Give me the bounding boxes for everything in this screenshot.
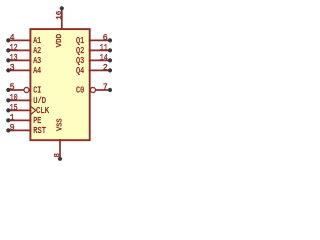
svg-text:VDD: VDD bbox=[56, 33, 64, 47]
svg-text:RST: RST bbox=[33, 126, 46, 136]
svg-text:Q2: Q2 bbox=[76, 46, 84, 56]
svg-text:6: 6 bbox=[103, 33, 108, 43]
svg-text:15: 15 bbox=[10, 103, 18, 113]
svg-text:10: 10 bbox=[10, 93, 18, 103]
svg-text:12: 12 bbox=[10, 43, 18, 53]
svg-text:Q1: Q1 bbox=[76, 36, 84, 46]
svg-text:U/D: U/D bbox=[33, 96, 46, 106]
svg-text:CI: CI bbox=[33, 86, 41, 96]
svg-text:16: 16 bbox=[56, 11, 64, 20]
svg-text:1: 1 bbox=[10, 113, 15, 123]
svg-text:3: 3 bbox=[10, 63, 15, 73]
svg-text:CLK: CLK bbox=[36, 106, 50, 116]
svg-text:9: 9 bbox=[10, 123, 15, 133]
svg-text:A1: A1 bbox=[33, 36, 41, 46]
svg-text:2: 2 bbox=[103, 63, 108, 73]
svg-text:C0: C0 bbox=[76, 86, 84, 96]
svg-text:VSS: VSS bbox=[56, 118, 64, 131]
svg-text:PE: PE bbox=[33, 116, 41, 126]
svg-text:A2: A2 bbox=[33, 46, 41, 56]
svg-text:A4: A4 bbox=[33, 66, 41, 76]
svg-text:4: 4 bbox=[10, 33, 15, 43]
svg-text:5: 5 bbox=[10, 83, 15, 93]
svg-text:11: 11 bbox=[100, 43, 108, 53]
svg-text:A3: A3 bbox=[33, 56, 41, 66]
svg-text:13: 13 bbox=[10, 53, 18, 63]
svg-text:14: 14 bbox=[100, 53, 108, 63]
svg-text:8: 8 bbox=[54, 153, 62, 157]
svg-text:Q3: Q3 bbox=[76, 56, 84, 66]
svg-text:7: 7 bbox=[103, 83, 108, 93]
svg-text:Q4: Q4 bbox=[76, 66, 84, 76]
